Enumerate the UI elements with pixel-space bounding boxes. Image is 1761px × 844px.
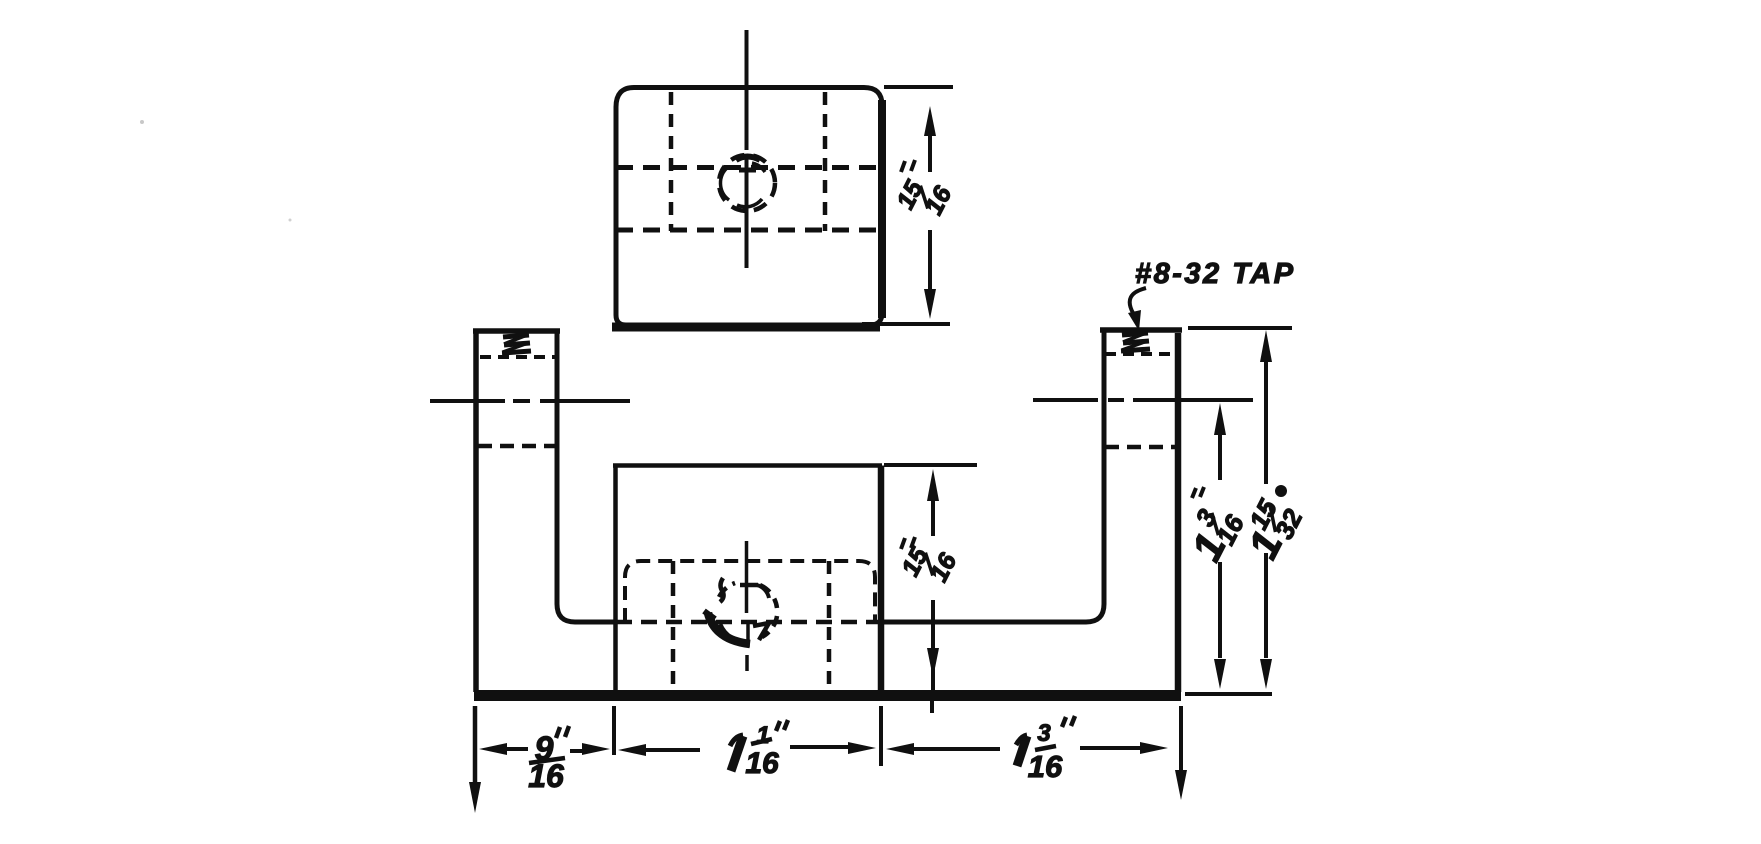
svg-text:3: 3 [1037, 720, 1051, 747]
svg-text:1: 1 [756, 722, 769, 749]
svg-text:16: 16 [528, 758, 564, 794]
svg-text:16: 16 [1028, 749, 1063, 784]
svg-text:#8-32 TAP: #8-32 TAP [1135, 258, 1296, 290]
svg-text:16: 16 [745, 747, 779, 780]
svg-text:16: 16 [925, 548, 963, 586]
svg-text:16: 16 [920, 181, 958, 219]
